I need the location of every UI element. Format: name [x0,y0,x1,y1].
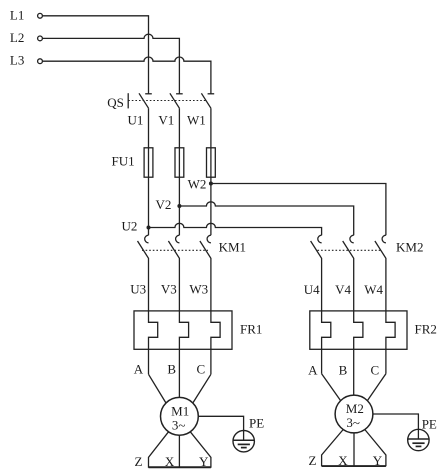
switch QS pole 3 blade [201,93,211,108]
thermal relay FR2 heater 2 [354,311,363,349]
thermal relay FR1 box [134,311,232,349]
motor M1 circle [161,397,199,435]
switch QS pole 1 contact bar [145,93,152,95]
label V1 [158,112,174,127]
svg-text:C: C [197,362,206,377]
label L2 [10,30,24,45]
contactor KM1 pole 3 arc [207,235,211,243]
svg-text:V1: V1 [158,112,174,127]
switch QS linkage tick [127,93,129,108]
label Y (M1) [199,454,209,469]
svg-text:W1: W1 [187,112,206,127]
M2 terminal bar [322,465,386,467]
svg-text:M2: M2 [346,401,364,416]
svg-text:QS: QS [107,95,124,110]
earth symbol PE1 [233,431,254,452]
label X (M1) [165,454,175,469]
M1 terminal bar [149,466,211,468]
svg-text:B: B [167,362,176,377]
svg-text:W4: W4 [364,282,383,297]
switch QS pole 3 contact bar [208,93,215,95]
wire motor M2 to PE earth [373,414,419,429]
label QS [107,95,124,110]
label U2 [122,219,138,234]
thermal relay FR1 heater 3 [211,311,220,374]
label FU1 [111,154,134,169]
wire V2 to KM2 pole 2 (hop over pole 3 line) [179,202,353,235]
switch QS linkage dashed line [128,100,207,102]
svg-text:V3: V3 [161,281,177,296]
label B (M1) [167,362,176,377]
svg-text:Z: Z [308,453,316,468]
contactor KM1 pole 3 blade [200,241,211,311]
label M1 3~ [172,417,186,432]
svg-text:3~: 3~ [172,417,186,432]
contactor KM2 linkage dashed line [318,249,382,251]
label L1 [10,7,24,22]
label W1 [187,112,206,127]
svg-text:L2: L2 [10,30,24,45]
label A (M1) [134,362,144,377]
label U1 [128,112,144,127]
svg-text:Y: Y [199,454,209,469]
wire W2 to KM2 pole 3 [211,184,386,236]
fuse FU1 pole 2 [175,148,184,177]
svg-text:L3: L3 [10,53,24,68]
label V3 [161,281,177,296]
wire QS1 to fuse 1 [148,108,150,148]
wire motor M2 to X terminal [353,433,355,466]
svg-text:PE: PE [249,416,264,431]
label M2 3~ [346,415,360,430]
switch QS pole 2 blade [170,93,180,108]
label FR2 [415,322,437,337]
thermal relay FR1 heater 1 [149,311,158,374]
node U2 junction dot [147,226,151,230]
wire A diagonal into motor M2 [322,374,341,401]
label M1 [171,403,189,418]
node W2 junction dot [209,182,213,186]
svg-text:U4: U4 [304,282,320,297]
contactor KM2 pole 3 arc [382,235,386,243]
label V2 [156,197,172,212]
label L3 [10,53,24,68]
label W2 [188,176,207,191]
svg-text:U3: U3 [130,281,146,296]
label X (M2) [338,453,348,468]
svg-text:A: A [134,362,144,377]
label W3 [189,281,208,296]
wire B vertical into motor M1 [178,349,180,397]
label V4 [335,282,351,297]
svg-text:V4: V4 [335,282,351,297]
wire W2 down to KM1 pole 3 [210,184,212,236]
contactor KM2 pole 3 blade [375,241,386,311]
wire motor M1 to Z terminal [149,432,169,468]
wire L3 to QS pole 3 (hops over poles 1,2) [43,57,211,94]
motor M2 circle [335,395,373,433]
contactor KM1 pole 1 blade [138,241,149,311]
wire B vertical into motor M2 [353,349,355,395]
svg-text:Y: Y [373,453,383,468]
earth symbol PE2 [408,429,429,450]
svg-text:KM1: KM1 [219,239,246,254]
svg-text:B: B [339,363,348,378]
wire U2 to KM2 pole 1 (hops over two lines) [149,223,322,235]
thermal relay FR2 heater 3 [386,311,395,374]
svg-text:X: X [338,453,348,468]
label U3 [130,281,146,296]
svg-text:V2: V2 [156,197,172,212]
label A (M2) [308,363,318,378]
svg-text:PE: PE [422,417,437,432]
label B (M2) [339,363,348,378]
contactor KM1 linkage dashed line [142,249,208,251]
svg-text:X: X [165,454,175,469]
wire U2 down to KM1 pole 1 [148,228,150,236]
label M2 [346,401,364,416]
wire V2 down to KM1 pole 2 [178,206,180,235]
svg-text:L1: L1 [10,7,24,22]
wire L2 to QS pole 2 (hop over pole1) [43,34,180,93]
svg-text:U1: U1 [128,112,144,127]
wire C diagonal into motor M1 [193,374,211,403]
svg-text:Z: Z [134,454,142,469]
wire motor M2 to Z terminal [322,430,344,467]
contactor KM2 pole 1 arc [318,235,322,243]
terminal L1 [38,13,43,18]
label C (M2) [371,363,380,378]
svg-text:3~: 3~ [346,415,360,430]
label KM2 [396,239,423,254]
terminal L2 [38,36,43,41]
contactor KM2 pole 2 blade [343,241,354,311]
label PE (M1) [249,416,264,431]
thermal relay FR2 box [310,311,407,349]
svg-text:FR1: FR1 [240,322,262,337]
wire QS3 to fuse 3 [210,108,212,148]
label Y (M2) [373,453,383,468]
wire C diagonal into motor M2 [367,374,386,401]
svg-text:M1: M1 [171,403,189,418]
node V2 junction dot [177,204,181,208]
wire motor M1 to X terminal [178,435,180,468]
svg-text:W3: W3 [189,281,208,296]
wire A diagonal into motor M1 [149,374,166,403]
wire motor M1 to Y terminal [190,432,211,468]
fuse FU1 pole 3 [207,148,216,177]
svg-text:FU1: FU1 [111,154,134,169]
switch QS pole 2 contact bar [176,93,183,95]
label Z (M2) [308,453,316,468]
contactor KM1 pole 2 blade [168,241,179,311]
switch QS pole 1 blade [139,93,149,108]
label C (M1) [197,362,206,377]
wire fuse1 to node U2 [148,177,150,227]
terminal L3 [38,59,43,64]
svg-text:KM2: KM2 [396,239,423,254]
label Z (M1) [134,454,142,469]
svg-text:FR2: FR2 [415,322,437,337]
svg-text:U2: U2 [122,219,138,234]
label PE (M2) [422,417,437,432]
wire L1 to QS pole 1 [43,16,149,94]
wire motor M2 to Y terminal [365,430,386,467]
svg-text:C: C [371,363,380,378]
contactor KM2 pole 1 blade [311,241,322,311]
thermal relay FR2 heater 1 [322,311,331,374]
thermal relay FR1 heater 2 [179,311,188,349]
wire fuse2 to node V2 [178,177,180,206]
contactor KM1 pole 1 arc [145,235,149,243]
svg-text:A: A [308,363,318,378]
label U4 [304,282,320,297]
label FR1 [240,322,262,337]
contactor KM2 pole 2 arc [350,235,354,243]
contactor KM1 pole 2 arc [176,235,180,243]
wire fuse3 to node W2 [210,177,212,183]
svg-text:W2: W2 [188,176,207,191]
label W4 [364,282,383,297]
wire QS2 to fuse 2 [178,108,180,148]
fuse FU1 pole 1 [144,148,153,177]
label KM1 [219,239,246,254]
wire motor M1 to PE earth [198,416,243,430]
